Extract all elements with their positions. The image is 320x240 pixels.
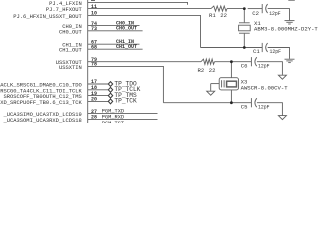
svg-text:68: 68 — [91, 44, 97, 50]
svg-text:AWSCR-8.00CV-T: AWSCR-8.00CV-T — [241, 85, 289, 92]
svg-text:12pF: 12pF — [270, 48, 282, 55]
svg-text:C1: C1 — [253, 48, 260, 55]
svg-text:12pF: 12pF — [258, 62, 270, 69]
svg-text:TP_TCK: TP_TCK — [114, 98, 137, 105]
svg-text:73: 73 — [91, 26, 97, 32]
svg-text:R2: R2 — [198, 67, 205, 74]
svg-text:28: 28 — [91, 115, 97, 121]
svg-text:12pF: 12pF — [269, 10, 281, 17]
svg-text:11: 11 — [91, 4, 97, 10]
svg-text:C2: C2 — [252, 10, 259, 17]
svg-text:20: 20 — [91, 97, 97, 103]
svg-text:12pF: 12pF — [258, 103, 270, 110]
svg-text:CH1_OUT: CH1_OUT — [59, 47, 83, 54]
svg-text:22: 22 — [220, 12, 227, 19]
svg-text:10: 10 — [91, 11, 97, 17]
svg-text:XD_SRCPUOFF_TB0.6_C13_TCK: XD_SRCPUOFF_TB0.6_C13_TCK — [0, 99, 82, 106]
svg-text:_UCA3SOMI_UCA3RXD_LCDS18: _UCA3SOMI_UCA3RXD_LCDS18 — [2, 117, 81, 123]
svg-text:ABM3-8.000MHZ-D2Y-T: ABM3-8.000MHZ-D2Y-T — [254, 26, 318, 33]
svg-text:PGM_TST: PGM_TST — [102, 121, 124, 123]
svg-text:C5: C5 — [241, 103, 248, 110]
svg-text:CH1_OUT: CH1_OUT — [116, 44, 137, 50]
svg-text:PJ.6_HFXIN_USSXT_BOUT: PJ.6_HFXIN_USSXT_BOUT — [13, 13, 82, 20]
svg-text:78: 78 — [91, 62, 97, 68]
svg-text:22: 22 — [209, 67, 216, 74]
svg-text:R1: R1 — [209, 12, 216, 19]
svg-text:C6: C6 — [241, 62, 248, 69]
svg-text:PGM_RXD: PGM_RXD — [102, 114, 124, 120]
svg-text:CH0_OUT: CH0_OUT — [59, 28, 83, 35]
svg-text:USSXTIN: USSXTIN — [59, 64, 82, 71]
svg-text:CH0_OUT: CH0_OUT — [116, 26, 137, 32]
